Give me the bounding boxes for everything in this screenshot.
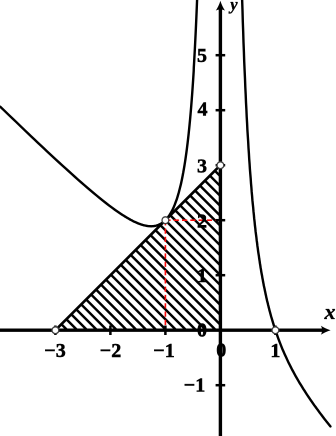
svg-text:y: y [228,0,238,14]
x tick -1 [164,326,167,336]
x tick 1 [274,326,277,336]
y tick 4 [216,109,226,112]
svg-text:−2: −2 [100,340,121,362]
svg-text:2: 2 [197,211,207,233]
y tick 5 [216,54,226,57]
hatched region (triangle under tangent line) [48,0,228,436]
x tick -3 [54,326,57,336]
y-axis arrowhead [216,1,225,11]
svg-text:x: x [324,299,336,324]
curve y = 1/x^2 - x, right branch [242,0,331,426]
x tick -2 [109,326,112,336]
y-axis [219,6,222,436]
svg-text:0: 0 [197,319,207,341]
x-axis [0,329,325,332]
open point (-3,0) [52,327,59,334]
x-axis arrowhead [321,326,331,335]
y tick -1 [216,384,226,387]
y tick 2 [216,219,226,222]
svg-text:−3: −3 [44,340,65,362]
svg-text:1: 1 [270,340,280,362]
svg-text:4: 4 [198,99,208,121]
open point (-1,2) [162,217,169,224]
curve y = 1/x^2 - x, left branch [0,0,197,226]
svg-text:0: 0 [216,340,226,362]
y tick 3 [216,164,226,167]
open point (0,3) [217,162,224,169]
y tick 1 [216,274,226,277]
svg-text:−1: −1 [153,340,174,362]
red dashed line y = 2 (from point (-1,2) to y-axis) [165,219,220,221]
svg-text:5: 5 [197,45,207,67]
svg-text:−1: −1 [184,375,205,397]
y tick labels [184,45,208,397]
svg-text:3: 3 [197,156,207,178]
tangent line segment from (-3,0) to (0,3) [55,165,220,330]
x tick labels [44,340,280,363]
open point (1,0) [272,327,279,334]
red dashed line x = -1 (from point (-1,2) to x-axis) [164,220,166,330]
svg-text:1: 1 [197,265,207,287]
